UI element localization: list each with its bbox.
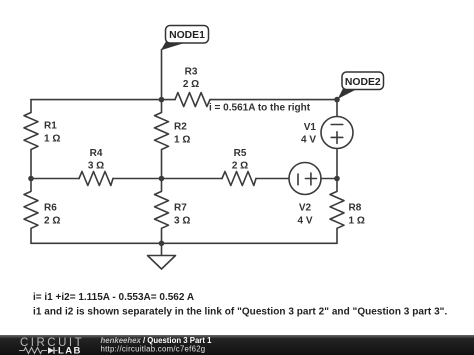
resistor R2 [155,100,169,179]
wire top horizontal left segment [31,99,175,101]
V1 minus terminal mark [331,124,343,126]
ground [148,256,176,270]
junction left middle [28,176,34,182]
junction NODE2 top wire [334,97,340,103]
wire V2 right lead [321,178,337,180]
junction right middle [334,176,340,182]
svg-text:R7: R7 [174,203,187,214]
svg-text:2 Ω: 2 Ω [232,161,248,172]
svg-text:3 Ω: 3 Ω [174,216,190,227]
svg-text:R3: R3 [185,67,198,78]
resistor R4 [79,172,113,186]
svg-text:i1 and i2 is shown separately: i1 and i2 is shown separately in the lin… [33,307,447,318]
svg-text:i = 0.561A to the right: i = 0.561A to the right [209,103,311,114]
wire bottom horizontal [31,242,337,244]
svg-text:4 V: 4 V [297,216,312,227]
svg-text:4 V: 4 V [301,135,316,146]
node NODE1 callout [161,26,209,51]
svg-text:R8: R8 [349,203,362,214]
node NODE2 callout [338,72,384,99]
svg-text:1 Ω: 1 Ω [44,134,60,145]
resistor R1 [24,100,38,179]
CircuitLab logo diode glyph [48,347,58,354]
resistor R3 [175,93,210,107]
V1 plus terminal mark [331,132,343,144]
resistor R6 [24,179,38,244]
svg-text:2 Ω: 2 Ω [44,216,60,227]
junction ground bottom [159,241,165,247]
CircuitLab logo resistor glyph [19,348,47,354]
svg-text:NODE2: NODE2 [345,77,381,88]
svg-text:3 Ω: 3 Ω [88,161,104,172]
svg-text:V1: V1 [304,122,317,133]
svg-text:R6: R6 [44,203,57,214]
ground stub [161,243,163,255]
resistor R8 [330,179,344,244]
node junction dots [28,97,340,246]
svg-text:R4: R4 [90,148,103,159]
wire middle branch center [113,178,222,180]
svg-text:1 Ω: 1 Ω [174,135,190,146]
svg-text:1 Ω: 1 Ω [349,216,365,227]
svg-text:R5: R5 [234,148,247,159]
svg-text:i= i1 +i2= 1.115A - 0.553A= 0.: i= i1 +i2= 1.115A - 0.553A= 0.562 A [33,292,194,303]
resistor R7 [155,179,169,244]
wire V1 bottom lead [336,149,338,179]
voltage source V2 [289,163,321,195]
junction center middle [159,176,165,182]
wire top horizontal right segment [210,99,337,101]
svg-text:LAB: LAB [58,346,82,355]
wire NODE1 stub [161,50,163,100]
voltage source V1 [321,117,353,149]
V2 minus terminal mark [297,174,299,185]
wire middle branch left [31,178,79,180]
svg-text:NODE1: NODE1 [169,30,205,41]
svg-text:2 Ω: 2 Ω [183,79,199,90]
junction NODE1 top wire [159,97,165,103]
resistor R5 [222,172,256,186]
wire V1 top lead [336,100,338,117]
svg-text:http://circuitlab.com/c7ef62g: http://circuitlab.com/c7ef62g [101,345,206,354]
svg-text:R2: R2 [174,122,187,133]
svg-text:R1: R1 [44,121,57,132]
wire V2 left lead [256,178,289,180]
svg-text:V2: V2 [299,203,312,214]
V2 plus terminal mark [305,173,316,185]
